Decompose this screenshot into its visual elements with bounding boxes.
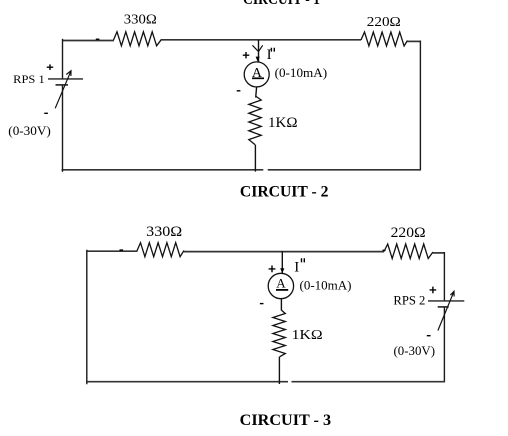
wire C3 top-right stub	[433, 252, 445, 254]
label double prime C3	[302, 258, 305, 262]
wire C2 top-left stub	[62, 40, 114, 42]
wire ammeter to 1K resistor C2	[255, 87, 258, 98]
ammeter underline C2	[252, 77, 264, 79]
wire joint tick C2	[96, 38, 100, 40]
wire C3 top-left stub	[87, 250, 138, 252]
ammeter circle C3	[268, 273, 293, 298]
source RPS2 short plate	[438, 306, 449, 308]
resistor 330ohm C2 zigzag	[114, 32, 162, 46]
svg-text:1KΩ: 1KΩ	[292, 328, 323, 343]
svg-text:(0-10mA): (0-10mA)	[300, 278, 352, 293]
source RPS1 variable arrow	[55, 71, 71, 109]
resistor 1Kohm C3 zigzag vertical	[273, 310, 285, 357]
wire C3 right vertical upper	[443, 252, 445, 301]
label plus ammeter C2	[243, 52, 250, 58]
ammeter circle C2	[244, 62, 269, 87]
source RPS1 long plate	[48, 78, 83, 80]
wire C3 left vertical	[86, 250, 88, 384]
svg-text:CIRCUIT - 2: CIRCUIT - 2	[240, 184, 329, 201]
label double prime C2	[271, 48, 274, 52]
svg-text:RPS 2: RPS 2	[393, 294, 425, 308]
current arrow filled head C3	[280, 268, 284, 273]
resistor 220ohm C2 zigzag	[361, 32, 408, 46]
wire C2 top-right stub	[408, 40, 422, 42]
wire 1K resistor to bottom C2	[254, 145, 256, 172]
label plus RPS1	[47, 64, 53, 70]
wire C3 top middle	[184, 251, 384, 253]
wire C3 bottom left segment	[86, 381, 288, 383]
wire C2 right vertical	[419, 41, 421, 171]
wire C3 right vertical lower	[443, 307, 445, 382]
source RPS1 short plate	[56, 84, 69, 86]
ammeter underline C3	[276, 289, 288, 291]
svg-text:330Ω: 330Ω	[124, 13, 157, 28]
wire ammeter to 1K resistor C3	[280, 299, 282, 311]
svg-text:330Ω: 330Ω	[146, 224, 182, 240]
wire C2 ammeter branch from top wire	[258, 40, 260, 62]
resistor 330ohm C3 zigzag	[137, 243, 184, 257]
label plus RPS2	[430, 287, 437, 294]
resistor 220ohm C3 zigzag	[384, 244, 433, 259]
label minus ammeter C2	[237, 90, 241, 92]
svg-text:CIRCUIT - 1: CIRCUIT - 1	[243, 0, 320, 8]
svg-text:CIRCUIT - 3: CIRCUIT - 3	[240, 412, 331, 429]
label minus RPS1	[44, 112, 48, 114]
svg-text:(0-30V): (0-30V)	[8, 124, 51, 138]
svg-text:RPS 1: RPS 1	[13, 72, 44, 86]
label minus ammeter C3	[260, 303, 264, 305]
wire C2 bottom left segment	[62, 169, 264, 171]
wire C3 ammeter branch from top wire	[281, 251, 283, 273]
wire joint tick C3 right	[383, 249, 386, 251]
label minus RPS2	[427, 335, 431, 337]
resistor 1Kohm C2 zigzag vertical	[249, 97, 261, 145]
svg-text:220Ω: 220Ω	[391, 225, 426, 241]
wire C2 bottom right segment	[268, 169, 421, 171]
wire C3 bottom right segment	[292, 381, 445, 383]
svg-text:A: A	[276, 276, 286, 291]
svg-text:(0-30V): (0-30V)	[394, 344, 436, 358]
wire C2 left vertical upper	[62, 39, 64, 79]
source RPS2 long plate	[428, 300, 464, 302]
current arrow filled head C2	[256, 57, 260, 62]
svg-text:220Ω: 220Ω	[367, 15, 401, 30]
current arrow open V head C2	[252, 45, 262, 51]
source RPS2 variable arrow	[438, 291, 454, 330]
svg-text:I: I	[294, 259, 299, 275]
wire C2 left vertical lower	[62, 85, 64, 172]
svg-text:1KΩ: 1KΩ	[268, 115, 298, 131]
svg-text:(0-10mA): (0-10mA)	[275, 65, 328, 80]
label plus ammeter C3	[269, 266, 276, 273]
wire C2 top middle	[162, 39, 362, 41]
wire joint tick C3	[120, 249, 124, 251]
wire 1K resistor to bottom C3	[278, 357, 280, 384]
